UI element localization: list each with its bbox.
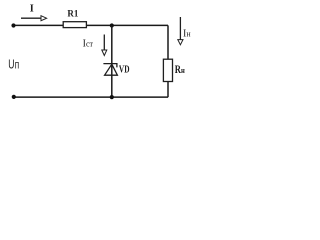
svg-text:Rн: Rн bbox=[175, 64, 185, 76]
node junction top bbox=[110, 23, 114, 27]
current arrow Iст bbox=[102, 35, 107, 56]
zener diode VD bbox=[103, 64, 117, 76]
current arrow Iн bbox=[178, 17, 183, 45]
resistor R1 bbox=[63, 22, 86, 28]
terminal dot top-left bbox=[11, 23, 15, 27]
svg-text:I: I bbox=[30, 3, 34, 14]
wire top bbox=[14, 24, 169, 26]
node junction bottom bbox=[110, 95, 114, 99]
wire bottom bbox=[14, 96, 168, 98]
svg-text:Iст: Iст bbox=[83, 39, 94, 50]
label Uп bbox=[8, 58, 19, 72]
terminal dot bottom-left bbox=[12, 95, 16, 99]
resistor Rн bbox=[163, 59, 172, 81]
svg-text:Uп: Uп bbox=[8, 58, 19, 72]
wire right branch bbox=[167, 25, 169, 97]
current arrow I bbox=[21, 16, 47, 21]
wire zener branch bbox=[111, 26, 113, 98]
svg-text:R1: R1 bbox=[67, 10, 78, 20]
svg-text:Iн: Iн bbox=[183, 28, 191, 39]
svg-text:VD: VD bbox=[119, 64, 130, 75]
